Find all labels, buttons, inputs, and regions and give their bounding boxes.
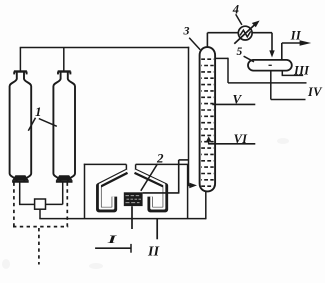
svg-text:5: 5	[237, 46, 243, 58]
svg-text:III: III	[293, 63, 310, 77]
svg-text:I: I	[106, 232, 119, 246]
svg-text:VI: VI	[234, 132, 249, 146]
svg-text:4: 4	[232, 3, 239, 17]
svg-text:V: V	[233, 91, 243, 106]
svg-text:1: 1	[35, 104, 42, 119]
svg-text:IV: IV	[307, 85, 323, 99]
svg-text:II: II	[290, 29, 302, 43]
svg-text:3: 3	[183, 23, 190, 37]
svg-text:2: 2	[156, 151, 164, 166]
svg-text:II: II	[147, 244, 160, 259]
